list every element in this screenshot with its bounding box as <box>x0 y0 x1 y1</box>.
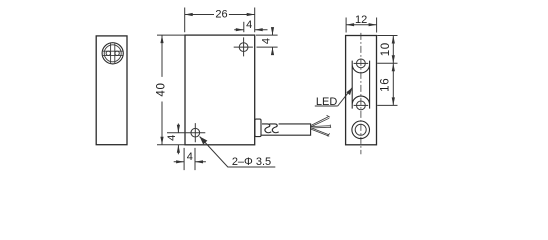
dim 4 bottom horizontal extension lines <box>184 148 195 170</box>
dim 10 extension lines <box>377 36 397 64</box>
hole top-right (Phi 3.5) <box>239 43 248 52</box>
svg-text:16: 16 <box>380 78 392 92</box>
dim 12 line <box>346 24 377 26</box>
slot top circle <box>357 59 366 68</box>
svg-text:LED: LED <box>316 96 337 108</box>
slot bottom circle <box>357 101 366 110</box>
dim 40 line <box>161 35 163 145</box>
centerline <box>360 33 362 154</box>
dim 26 line <box>185 14 255 16</box>
sensing face symbol cross lines <box>103 44 123 64</box>
svg-text:26: 26 <box>215 9 227 21</box>
slot top circle crosshair <box>354 62 369 64</box>
wire 2 (middle) <box>311 125 331 128</box>
dim 26 arrows <box>185 13 255 16</box>
dim 40 arrows <box>160 35 163 145</box>
hole bottom-left crosshair <box>186 123 205 142</box>
sensing face symbol inner ring <box>104 45 121 62</box>
dim 40 extension lines <box>157 35 185 145</box>
hole top-right crosshair <box>234 37 253 56</box>
dim 10 line <box>392 36 394 64</box>
svg-text:4: 4 <box>261 38 273 44</box>
sensing face symbol small circles <box>106 51 110 55</box>
dim 12 arrows <box>346 23 377 26</box>
dim 4 bottom-left vertical: extension <box>167 132 186 134</box>
svg-text:12: 12 <box>355 14 367 26</box>
svg-text:4: 4 <box>187 151 193 163</box>
svg-text:2–Φ 3.5: 2–Φ 3.5 <box>232 156 271 168</box>
LED label underline <box>315 105 338 107</box>
slot bottom circle crosshair <box>354 104 369 106</box>
dim 16 arrows <box>392 63 395 105</box>
wire 3 (bottom) <box>311 128 330 137</box>
svg-text:4: 4 <box>246 19 252 31</box>
leader 2-Phi3.5 <box>200 137 276 168</box>
dim 26 extension lines <box>185 8 255 33</box>
sensing face symbol outer circle <box>102 43 123 64</box>
svg-text:10: 10 <box>380 42 392 56</box>
front view body <box>185 35 255 145</box>
svg-text:40: 40 <box>156 82 168 96</box>
mounting slot outline <box>352 61 369 109</box>
LED window double circle <box>352 121 370 139</box>
right side view body <box>346 36 377 145</box>
dim 16 line <box>392 63 394 105</box>
dim 10 arrows <box>392 36 395 64</box>
hole bottom-left (Phi 3.5) <box>191 128 200 137</box>
dim 16 extension line <box>377 104 397 106</box>
cable body <box>262 124 311 135</box>
dim 4 bottom-left vertical line+arrows <box>177 124 179 155</box>
dim 4 bottom horizontal line+arrows <box>174 161 206 163</box>
dim 4 right line+arrows <box>272 27 274 55</box>
dim 4 right extension lines <box>256 35 278 47</box>
dim 12 extension lines <box>346 18 377 33</box>
cable gland stub <box>255 119 261 137</box>
cable slack squiggle S2 <box>269 124 278 133</box>
dim 4 top line+arrows <box>234 29 267 31</box>
wire 1 (top) <box>311 115 330 127</box>
LED leader <box>338 88 353 106</box>
cable slack squiggle S1 <box>262 124 271 133</box>
left side view body <box>96 36 127 145</box>
dim 4 top extension line <box>243 22 245 32</box>
svg-text:4: 4 <box>166 135 178 141</box>
